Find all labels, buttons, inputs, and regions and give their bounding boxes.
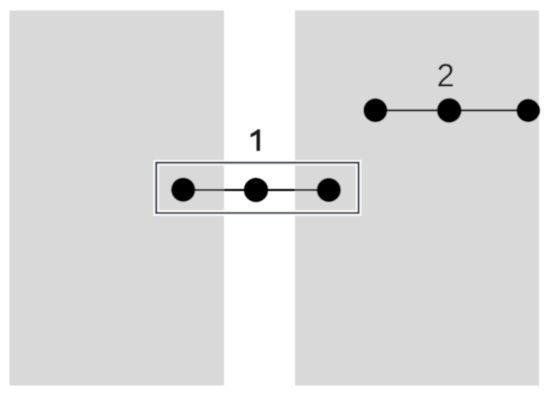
- selection box around molecule 1: [156, 163, 358, 213]
- label 1: [251, 129, 260, 151]
- svg-text:2: 2: [437, 57, 455, 93]
- molecule 2 middle atom: [437, 98, 462, 123]
- molecule 2 left atom: [363, 98, 387, 122]
- right plate (gray region): [295, 11, 539, 386]
- molecule 1 right atom: [317, 178, 341, 202]
- molecule 2 wire (connecting line): [375, 109, 528, 111]
- selection box white halo: [156, 163, 358, 213]
- molecule 1 left atom: [171, 178, 195, 202]
- molecule 1 middle atom: [244, 178, 268, 202]
- left plate (gray region): [10, 11, 225, 386]
- molecule 1 wire (connecting line): [183, 189, 329, 191]
- molecule 2 right atom: [517, 99, 540, 122]
